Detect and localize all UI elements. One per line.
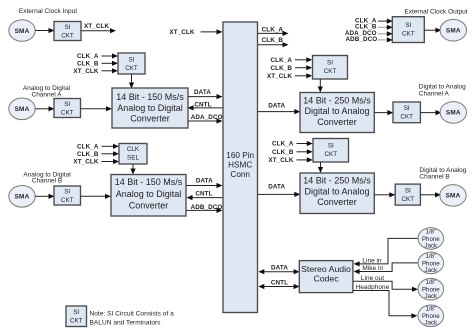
svg-text:14 Bit - 250 Ms/s: 14 Bit - 250 Ms/s bbox=[303, 95, 371, 105]
1/8" phone jack (mike in) bbox=[418, 252, 444, 274]
net DATA (ADC A to HSMC) bbox=[188, 89, 223, 99]
svg-text:Jack: Jack bbox=[425, 267, 438, 274]
svg-text:14 Bit - 250 Ms/s: 14 Bit - 250 Ms/s bbox=[303, 176, 371, 186]
svg-text:CKT: CKT bbox=[70, 318, 83, 325]
svg-text:ADB_DCO: ADB_DCO bbox=[345, 36, 377, 43]
SMA connector (external clock input) bbox=[9, 20, 35, 42]
net DATA (HSMC to codec, bidirectional) bbox=[258, 265, 299, 275]
svg-text:SMA: SMA bbox=[446, 28, 461, 35]
net CLK_A (HSMC output stub) bbox=[258, 27, 289, 36]
svg-text:SI: SI bbox=[73, 309, 79, 316]
svg-text:CLK_A: CLK_A bbox=[272, 141, 294, 148]
svg-text:DATA: DATA bbox=[268, 103, 285, 110]
net DATA (ADC B to HSMC) bbox=[186, 178, 223, 189]
svg-text:Headphone: Headphone bbox=[356, 284, 390, 291]
svg-text:1/8": 1/8" bbox=[425, 228, 436, 235]
label: Analog to Digital Channel A bbox=[23, 85, 71, 98]
net CLK_B (into DAC A clock SI) bbox=[271, 65, 313, 72]
svg-text:Analog to Digital: Analog to Digital bbox=[116, 189, 182, 199]
note SI circuit symbol bbox=[66, 306, 87, 327]
svg-text:SI: SI bbox=[327, 60, 333, 67]
svg-text:DATA: DATA bbox=[194, 89, 211, 96]
svg-text:External Clock Output: External Clock Output bbox=[404, 9, 467, 16]
svg-text:CKT: CKT bbox=[402, 31, 415, 38]
svg-text:XT_CLK: XT_CLK bbox=[169, 29, 194, 36]
svg-text:SMA: SMA bbox=[15, 194, 30, 201]
net ADA_DCO (into clock output SI) bbox=[345, 30, 393, 37]
svg-text:XT_CLK: XT_CLK bbox=[267, 73, 292, 80]
svg-text:CLK_A: CLK_A bbox=[77, 53, 99, 60]
svg-text:DATA: DATA bbox=[196, 178, 213, 185]
net CLK_A (into clock output SI) bbox=[355, 18, 393, 25]
net CLK_B (into DAC B clock SI) bbox=[272, 149, 313, 156]
svg-text:1/8": 1/8" bbox=[425, 306, 436, 313]
svg-text:SI: SI bbox=[64, 189, 70, 196]
svg-text:160 Pin: 160 Pin bbox=[226, 151, 254, 160]
svg-text:CKT: CKT bbox=[125, 65, 138, 72]
SI circuit (external clock input) bbox=[54, 22, 81, 41]
svg-text:CKT: CKT bbox=[61, 110, 74, 117]
wire SMA to SI circuit bbox=[35, 28, 54, 33]
svg-text:Digital to Analog: Digital to Analog bbox=[304, 106, 369, 116]
svg-text:External Clock Input: External Clock Input bbox=[19, 8, 77, 15]
wire SI clock to DAC A bbox=[318, 79, 323, 93]
svg-text:CLK_B: CLK_B bbox=[272, 149, 294, 156]
net ADA_DCO (ADC A to HSMC) bbox=[188, 114, 223, 123]
wire SI clock to ADC A bbox=[129, 74, 134, 89]
svg-text:CKT: CKT bbox=[400, 114, 413, 121]
svg-text:CLK_A: CLK_A bbox=[262, 27, 284, 34]
svg-text:Mike In: Mike In bbox=[362, 265, 383, 272]
ADC A: 14 Bit - 150 Ms/s Analog to Digital Converter bbox=[112, 88, 188, 128]
svg-text:CLK_B: CLK_B bbox=[77, 151, 99, 158]
net XT_CLK (from SI circuit) bbox=[81, 23, 116, 33]
net Line out (codec to jack) bbox=[353, 275, 418, 292]
net CLK_B (HSMC output stub) bbox=[258, 37, 289, 47]
wire SI to ADC A input bbox=[81, 106, 113, 111]
SMA connector (external clock output) bbox=[440, 19, 466, 41]
net ADB_DCO (into clock output SI) bbox=[345, 36, 392, 43]
SMA connector (ADC channel A) bbox=[9, 98, 35, 120]
svg-text:Jack: Jack bbox=[425, 320, 438, 327]
SMA connector (ADC channel B) bbox=[9, 186, 35, 208]
1/8" phone jack (line in) bbox=[418, 228, 444, 250]
wire DAC A to SI output circuit bbox=[374, 110, 393, 115]
svg-text:SI: SI bbox=[129, 57, 135, 64]
net DATA (HSMC to DAC B) bbox=[258, 184, 300, 197]
net XT_CLK (into DAC B clock SI) bbox=[268, 157, 312, 164]
svg-text:14 Bit - 150 Ms/s: 14 Bit - 150 Ms/s bbox=[116, 92, 184, 102]
svg-text:SMA: SMA bbox=[446, 193, 461, 200]
svg-text:Digital to Analog: Digital to Analog bbox=[304, 186, 369, 196]
svg-text:CKT: CKT bbox=[324, 151, 337, 158]
svg-text:CLK: CLK bbox=[127, 146, 140, 153]
svg-text:XT_CLK: XT_CLK bbox=[84, 23, 109, 30]
1/8" phone jack (headphone) bbox=[418, 305, 444, 327]
wire SMA to SI circuit (channel B) bbox=[35, 194, 54, 199]
svg-text:Codec: Codec bbox=[313, 273, 339, 283]
svg-text:1/8": 1/8" bbox=[425, 279, 436, 286]
svg-text:XT_CLK: XT_CLK bbox=[73, 68, 98, 75]
wire SI to SMA (DAC A) bbox=[420, 110, 441, 115]
svg-text:Jack: Jack bbox=[425, 242, 438, 249]
label: Digital to Analog Channel A bbox=[419, 83, 466, 97]
net CNTL (HSMC to codec, bidirectional) bbox=[258, 279, 299, 289]
1/8" phone jack (line out) bbox=[418, 278, 444, 300]
wire CLK SEL to ADC B bbox=[130, 164, 135, 175]
svg-text:CKT: CKT bbox=[61, 33, 74, 40]
net CLK_B (into CLK SEL) bbox=[77, 151, 119, 158]
svg-text:Line in: Line in bbox=[362, 257, 382, 264]
svg-text:DATA: DATA bbox=[268, 184, 285, 191]
net Line in (jack to codec) bbox=[354, 238, 419, 266]
svg-text:Channel A: Channel A bbox=[419, 90, 450, 97]
svg-text:XT_CLK: XT_CLK bbox=[268, 157, 293, 164]
wire SMA to SI circuit (channel A) bbox=[35, 106, 54, 111]
svg-text:CLK_B: CLK_B bbox=[262, 37, 284, 44]
ADC B: 14 Bit - 150 Ms/s Analog to Digital Converter bbox=[111, 175, 186, 217]
DAC A: 14 Bit - 250 Ms/s Digital to Analog Converter bbox=[300, 93, 374, 133]
SI circuit (external clock output) bbox=[392, 17, 424, 43]
net CLK_A (into DAC A clock SI) bbox=[271, 57, 313, 64]
svg-text:CLK_B: CLK_B bbox=[271, 65, 293, 72]
svg-text:Converter: Converter bbox=[130, 114, 170, 124]
svg-text:SI: SI bbox=[404, 105, 410, 112]
svg-text:Channel A: Channel A bbox=[32, 91, 63, 98]
svg-text:Digital to Analog: Digital to Analog bbox=[419, 83, 466, 90]
net XT_CLK (into CLK SEL) bbox=[73, 159, 119, 166]
SI circuit (DAC B output) bbox=[395, 184, 420, 205]
svg-text:14 Bit - 150 Ms/s: 14 Bit - 150 Ms/s bbox=[115, 177, 183, 187]
net CLK_A (into DAC B clock SI) bbox=[272, 141, 313, 148]
SI circuit (DAC A clock) bbox=[313, 56, 348, 80]
svg-text:CKT: CKT bbox=[401, 196, 414, 203]
svg-text:Note: SI Circuit Consists of a: Note: SI Circuit Consists of a bbox=[90, 311, 175, 318]
svg-text:SMA: SMA bbox=[15, 28, 30, 35]
svg-text:Conn: Conn bbox=[230, 170, 250, 179]
svg-text:Analog to Digital: Analog to Digital bbox=[117, 103, 183, 113]
CLK SEL circuit bbox=[119, 144, 147, 165]
net XT_CLK (into DAC A clock SI) bbox=[267, 73, 312, 80]
svg-text:SI: SI bbox=[64, 101, 70, 108]
svg-text:DATA: DATA bbox=[271, 265, 288, 272]
SMA connector (DAC channel A) bbox=[440, 102, 466, 124]
svg-text:SI: SI bbox=[405, 22, 411, 29]
HSMC connector: 160 Pin HSMC Conn bbox=[223, 22, 258, 313]
svg-text:SI: SI bbox=[405, 187, 411, 194]
SMA connector (DAC channel B) bbox=[440, 185, 466, 207]
wire SI to SMA (DAC B) bbox=[420, 192, 441, 197]
net XT_CLK (into ADC A clock SI) bbox=[73, 68, 118, 75]
svg-text:CNTL: CNTL bbox=[195, 190, 212, 197]
label: Digital to Analog Channel B bbox=[419, 167, 466, 181]
net CLK_B (into ADC A clock SI) bbox=[77, 60, 118, 67]
svg-text:SMA: SMA bbox=[15, 106, 30, 113]
svg-text:SEL: SEL bbox=[127, 155, 139, 162]
svg-text:1/8": 1/8" bbox=[425, 253, 436, 260]
wire SI to SMA (clock output) bbox=[424, 28, 441, 33]
svg-text:CNTL: CNTL bbox=[271, 279, 288, 286]
svg-text:CKT: CKT bbox=[61, 197, 74, 204]
net Headphone (codec to jack) bbox=[353, 284, 417, 318]
Stereo Audio Codec bbox=[299, 261, 353, 293]
SI circuit (DAC B clock) bbox=[313, 139, 349, 163]
label: Analog to Digital Channel B bbox=[23, 171, 71, 184]
svg-text:CNTL: CNTL bbox=[194, 101, 211, 108]
SI circuit (ADC A input) bbox=[54, 99, 81, 118]
svg-text:Channel B: Channel B bbox=[32, 178, 62, 185]
svg-text:CLK_A: CLK_A bbox=[77, 144, 99, 151]
svg-text:CKT: CKT bbox=[324, 68, 337, 75]
svg-text:Converter: Converter bbox=[129, 201, 169, 211]
svg-text:HSMC: HSMC bbox=[228, 161, 252, 170]
note text bbox=[90, 311, 175, 327]
svg-text:CLK_A: CLK_A bbox=[271, 57, 293, 64]
net CLK_A (into ADC A clock SI) bbox=[77, 53, 118, 60]
net ADB_DCO (ADC B to HSMC) bbox=[186, 204, 223, 213]
svg-text:Converter: Converter bbox=[317, 117, 357, 127]
net CNTL (HSMC to ADC A) bbox=[188, 101, 223, 110]
SI circuit (ADC A clock) bbox=[118, 53, 145, 74]
wire DAC B to SI output circuit bbox=[374, 192, 395, 197]
wire SI clock to DAC B bbox=[318, 162, 323, 173]
svg-text:CLK_B: CLK_B bbox=[77, 60, 99, 67]
net CLK_A (into CLK SEL) bbox=[77, 144, 119, 151]
SI circuit (ADC B input) bbox=[54, 186, 81, 205]
net CNTL (HSMC to ADC B) bbox=[187, 190, 223, 200]
svg-text:Converter: Converter bbox=[317, 197, 357, 207]
net Mike In (jack to codec) bbox=[354, 263, 419, 274]
net DATA (HSMC to DAC A) bbox=[258, 103, 300, 115]
svg-text:XT_CLK: XT_CLK bbox=[73, 159, 98, 166]
wire SI to ADC B input bbox=[81, 194, 112, 199]
svg-text:Channel B: Channel B bbox=[419, 174, 449, 181]
svg-text:SI: SI bbox=[328, 143, 334, 150]
svg-text:Jack: Jack bbox=[425, 293, 438, 300]
SI circuit (DAC A output) bbox=[393, 102, 420, 123]
DAC B: 14 Bit - 250 Ms/s Digital to Analog Converter bbox=[300, 173, 374, 214]
svg-text:SI: SI bbox=[65, 24, 71, 31]
net CLK_B (into clock output SI) bbox=[355, 24, 393, 31]
net XT_CLK (into HSMC) bbox=[169, 29, 222, 36]
svg-text:BALUN and Terminators: BALUN and Terminators bbox=[90, 320, 162, 327]
svg-text:SMA: SMA bbox=[446, 110, 461, 117]
